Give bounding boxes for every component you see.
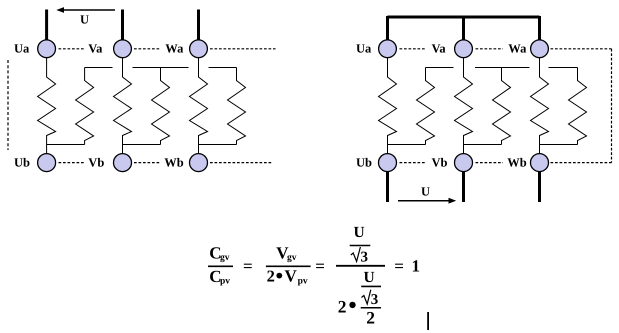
fraction bar U/(2·sqrt3/2) <box>361 285 381 287</box>
svg-text:U: U <box>364 269 375 286</box>
supply lead Vb (thick, right figure bottom) <box>462 172 465 203</box>
winding V1 (right figure, phase V inner zigzag) <box>455 58 473 154</box>
svg-text:Wb: Wb <box>164 155 184 169</box>
svg-text:U: U <box>421 184 430 198</box>
svg-text:pv: pv <box>220 277 230 287</box>
terminal Ua (right figure) <box>379 40 397 58</box>
terminal Wb (right figure) <box>531 154 549 172</box>
wire bottom jog phase V (right figure) <box>464 144 502 146</box>
terminal Wa (left figure) <box>190 40 208 58</box>
winding U1 (left figure, phase U inner zigzag) <box>38 58 56 154</box>
dotted link Vb-Wb (right figure bottom row) <box>476 162 504 164</box>
wire top rail segment 2 (left figure, between Va and Wa leads) <box>133 67 189 69</box>
svg-text:gv: gv <box>220 253 230 263</box>
terminal Ua (left figure) <box>38 40 56 58</box>
svg-text:Wb: Wb <box>507 155 527 169</box>
fraction bar Vgv/(2Vpv) <box>266 265 311 267</box>
formula term Cgv (numerator) <box>209 244 229 264</box>
dotted link Vb-Wb (left figure bottom row) <box>134 162 161 164</box>
dotted link Ua-Va (right figure top row) <box>400 48 427 50</box>
fraction bar Cgv/Cpv <box>208 265 233 267</box>
svg-text:Va: Va <box>432 42 447 56</box>
wire top rail segment 3 (right figure) <box>549 67 578 69</box>
svg-text:Wa: Wa <box>508 42 527 56</box>
terminal Ub (right figure) <box>379 154 397 172</box>
dotted link Ub-Vb (left figure bottom row) <box>59 162 85 164</box>
svg-text:pv: pv <box>298 277 308 287</box>
dotted link Wb to right edge (right figure) <box>551 162 612 164</box>
svg-text:=: = <box>315 257 325 276</box>
svg-text:2: 2 <box>366 307 375 327</box>
dotted tail from Wb (left figure bottom row) <box>210 162 272 164</box>
terminal Vb (right figure) <box>455 154 473 172</box>
wire bottom jog phase W (right figure) <box>540 144 578 146</box>
winding W2 (left figure, phase W outer zigzag) <box>228 68 246 145</box>
bus drop to Wa (right figure) <box>538 16 541 41</box>
winding V2 (right figure, phase V outer zigzag) <box>493 68 511 145</box>
dotted tail from Wa (left figure top row) <box>210 48 276 50</box>
svg-text:Vb: Vb <box>88 155 104 169</box>
terminal Wa (right figure) <box>531 40 549 58</box>
winding U2 (left figure, phase U outer zigzag) <box>76 68 94 145</box>
winding W1 (right figure, phase W inner zigzag) <box>531 58 549 154</box>
svg-text:1: 1 <box>412 257 421 276</box>
formula term sqrt(3) (lower) <box>362 290 379 308</box>
svg-text:Va: Va <box>88 42 103 56</box>
text cursor <box>427 312 429 330</box>
supply lead Wb (thick, right figure bottom) <box>538 172 541 203</box>
fraction bar sqrt3/2 <box>361 307 381 309</box>
winding V2 (left figure, phase V outer zigzag) <box>152 68 170 145</box>
svg-text:Vb: Vb <box>432 155 448 169</box>
svg-text:U: U <box>80 13 89 27</box>
supply lead Ua (thick, left figure) <box>45 10 48 42</box>
wire bottom jog phase W (left figure) <box>199 144 237 146</box>
terminal Va (right figure) <box>455 40 473 58</box>
winding V1 (left figure, phase V inner zigzag) <box>114 58 132 154</box>
formula term 2· (lower denominator factor) <box>338 297 356 317</box>
svg-text:=: = <box>394 257 404 276</box>
terminal Wb (left figure) <box>190 154 208 172</box>
svg-text:Ua: Ua <box>356 42 372 56</box>
dotted vertical link Ua-Ub (left edge) <box>7 60 9 150</box>
svg-text:Ua: Ua <box>14 42 30 56</box>
wire bottom jog phase U (left figure) <box>47 144 85 146</box>
dotted link Ua-Va (left figure top row) <box>59 48 85 50</box>
svg-text:Wa: Wa <box>165 42 184 56</box>
fraction bar U/sqrt3 <box>350 245 371 247</box>
svg-text:3: 3 <box>361 250 369 266</box>
wire top rail segment 1 (right figure) <box>426 67 454 69</box>
supply lead Ub (thick, right figure bottom) <box>386 172 389 203</box>
main fraction bar <box>336 265 385 267</box>
svg-text:U: U <box>354 224 365 241</box>
supply lead Wa (thick, left figure) <box>197 10 200 42</box>
dotted link Ub-Vb (right figure bottom row) <box>400 162 427 164</box>
svg-text:V: V <box>285 267 298 286</box>
winding U2 (right figure, phase U outer zigzag) <box>417 68 435 145</box>
terminal Vb (left figure) <box>114 154 132 172</box>
winding W1 (left figure, phase W inner zigzag) <box>190 58 208 154</box>
terminal Ub (left figure) <box>38 154 56 172</box>
svg-text:2: 2 <box>338 297 347 317</box>
formula term sqrt(3) (upper denominator) <box>351 247 368 266</box>
winding W2 (right figure, phase W outer zigzag) <box>569 68 587 145</box>
formula term Cpv (denominator) <box>209 267 230 287</box>
dotted link Va-Wa (right figure top row) <box>476 48 504 50</box>
supply bus (thick, right figure top) <box>388 16 540 19</box>
terminal Va (left figure) <box>114 40 132 58</box>
bus drop to Va (right figure) <box>462 16 465 41</box>
dotted link Wa to right edge (right figure) <box>551 48 612 50</box>
svg-text:Ub: Ub <box>14 155 30 169</box>
svg-text:gv: gv <box>287 253 297 263</box>
voltage arrow U (right figure, pointing right) <box>398 198 456 204</box>
svg-text:3: 3 <box>371 292 379 308</box>
dotted link Va-Wa (left figure top row) <box>134 48 161 50</box>
formula term Vgv (numerator) <box>276 244 296 264</box>
wire top rail segment 1 (left figure, hops over Va lead) <box>85 67 113 69</box>
wire bottom jog phase V (left figure) <box>123 144 161 146</box>
wire bottom jog phase U (right figure) <box>388 144 426 146</box>
svg-text:Ub: Ub <box>356 155 372 169</box>
formula term 2·Vpv (denominator) <box>267 267 308 287</box>
winding U1 (right figure, phase U inner zigzag) <box>379 58 397 154</box>
dotted vertical link right edge (right figure) <box>611 49 613 163</box>
wire top rail segment 3 (left figure, right of Wa lead) <box>209 67 237 69</box>
wire top rail segment 2 (right figure) <box>475 67 530 69</box>
voltage arrow U (left figure, pointing left) <box>56 7 115 13</box>
svg-text:=: = <box>243 257 253 276</box>
supply lead Va (thick, left figure) <box>121 10 124 42</box>
bus drop to Ua (right figure) <box>386 16 389 41</box>
svg-text:2: 2 <box>267 267 275 286</box>
